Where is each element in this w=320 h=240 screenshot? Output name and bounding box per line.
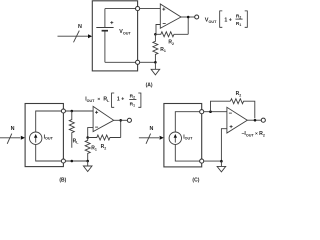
svg-text:(A): (A) [146,82,153,88]
plus marker U1 [162,8,165,11]
ground C [220,161,222,166]
terminal bottom B [61,159,65,163]
wire terminal to op-amp + [140,8,161,10]
current source C [169,132,181,144]
op-amp U1 [160,4,181,28]
wire output A [181,16,195,18]
svg-text:R2: R2 [130,94,135,100]
arrowhead input C [160,136,164,140]
node feedback C [209,110,212,113]
battery wire bottom [104,32,106,63]
svg-text:R2: R2 [101,144,107,150]
node output A [187,16,190,19]
svg-text:N: N [11,126,15,132]
svg-text:R2: R2 [236,13,241,19]
terminal top C [200,110,204,114]
wire output B [114,119,128,121]
wire source to top C [175,112,199,132]
plus marker U3 [230,125,233,128]
resistor R2 (A) [155,32,188,37]
wire inverting input B [88,128,93,137]
node ground A [154,61,157,64]
svg-text:1 +: 1 + [224,17,232,23]
wire input bus A [58,35,89,37]
wire feedback column A [187,17,189,34]
svg-text:(C): (C) [192,178,199,184]
svg-text:RL: RL [73,139,80,145]
svg-text:R1: R1 [130,102,135,108]
svg-text:RL: RL [103,97,110,103]
svg-text:R2: R2 [168,40,174,46]
minus marker U1 [163,23,166,25]
terminal bottom A [136,60,140,64]
resistor R1 (A) [153,34,158,63]
node RL bottom [71,160,74,163]
node inverting B [86,136,89,139]
arrowhead input A [88,34,92,38]
terminal output C [261,118,265,122]
DAC box B [25,104,63,167]
wire battery to top terminal [105,8,136,10]
wire bottom terminal to ground C [204,160,222,162]
minus marker U3 [229,112,232,114]
svg-text:1 +: 1 + [117,97,124,103]
resistor R2 (C) [230,99,254,119]
op-amp U3 [227,107,247,133]
ground A [154,62,156,69]
wire ground row A [140,61,156,63]
wire bottom terminal to ground row B [66,160,88,162]
svg-text:−IOUT × R2: −IOUT × R2 [241,131,265,137]
battery wire top [104,9,106,28]
plus marker U2 [95,111,98,114]
wire battery to bottom terminal [105,61,136,63]
op-amp U2 [93,106,114,131]
svg-text:N: N [149,126,153,132]
svg-text:R1: R1 [236,21,241,27]
wire feedback up C [211,101,231,112]
bus slash C [146,134,151,144]
svg-text:R1: R1 [160,47,166,53]
resistor R1 (B) [85,138,90,162]
wire source to top B [36,111,62,132]
battery short plate [102,30,108,32]
bus slash A [74,31,80,43]
terminal top B [61,109,65,113]
DAC box C [164,104,202,167]
svg-text:N: N [78,24,82,30]
bus slash B [7,134,12,144]
terminal output A [195,15,199,19]
node RL top [71,110,74,113]
node inverting A [154,33,157,36]
battery long plate [96,27,113,29]
ground B [87,161,89,166]
wire terminal to op-amp + B [66,110,94,112]
svg-text:IOUT: IOUT [44,134,54,140]
resistor R2 (B) [88,135,121,140]
DAC box A [92,1,137,71]
svg-text:R2: R2 [236,91,242,97]
wire input bus B [0,137,20,139]
svg-text:VOUT: VOUT [119,29,131,35]
terminal top A [136,7,140,11]
svg-text:×: × [97,96,100,102]
svg-text:(B): (B) [59,178,66,184]
wire input bus C [139,137,159,139]
node ground C [220,160,223,163]
minus marker U2 [95,126,98,128]
node output C [254,119,257,122]
wire terminal to op-amp - C [204,111,227,113]
node output B [119,119,122,122]
wire feedback column B [120,120,122,137]
svg-text:IOUT: IOUT [183,134,193,140]
terminal output B [127,118,131,122]
wire inverting input A [156,25,160,34]
wire output C [247,119,261,121]
terminal bottom C [200,159,204,163]
svg-text:VOUT: VOUT [205,18,217,24]
wire source to bottom B [36,144,62,161]
resistor RL [69,111,74,148]
node R1 bottom B [86,160,89,163]
battery plus sign [110,21,113,24]
wire noninverting input C [221,129,227,162]
current source B [30,132,42,144]
wire source to bottom C [175,144,199,161]
svg-text:IOUT: IOUT [85,97,95,103]
arrowhead input B [21,136,25,140]
svg-text:R1: R1 [91,146,97,152]
